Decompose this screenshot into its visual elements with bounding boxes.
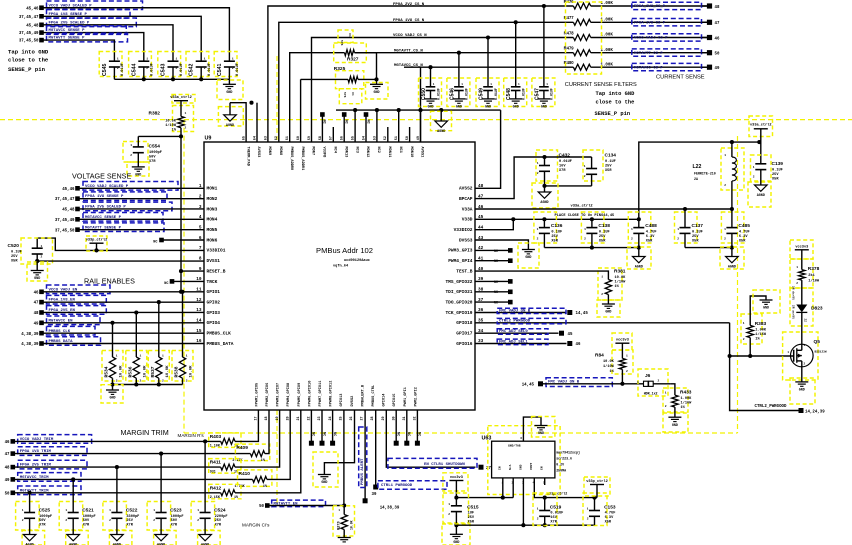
- svg-text:ZZ: ZZ: [803, 319, 806, 323]
- review highlight box: [566, 2, 602, 74]
- svg-text:50V: 50V: [149, 156, 156, 160]
- svg-text:X5R: X5R: [551, 240, 558, 244]
- pin 64 AVSS3: [253, 136, 260, 157]
- svg-text:2: 2: [796, 282, 798, 285]
- note MARGIN CI's: [242, 523, 270, 528]
- svg-text:0.1UF: 0.1UF: [11, 251, 22, 255]
- svg-text:MON7: MON7: [311, 147, 315, 156]
- svg-text:25: 25: [339, 416, 343, 420]
- svg-text:FPWM4_GPIO8: FPWM4_GPIO8: [287, 383, 291, 407]
- svg-text:AGND: AGND: [635, 266, 643, 270]
- wire MGTAVTT CS P: [290, 53, 574, 142]
- junction: [375, 108, 379, 112]
- pin 53 NC2: [373, 136, 380, 153]
- note text: [555, 214, 616, 218]
- svg-text:25V: 25V: [551, 235, 558, 239]
- junction: [179, 134, 183, 138]
- svg-text:AGND: AGND: [757, 194, 765, 198]
- pin 5 MON5: [199, 225, 218, 233]
- svg-text:1UF: 1UF: [468, 512, 474, 516]
- svg-text:4,38,39: 4,38,39: [21, 343, 39, 347]
- svg-text:0.01UF: 0.01UF: [550, 512, 563, 516]
- svg-text:2: 2: [587, 518, 589, 521]
- pin no-connect: [475, 290, 513, 296]
- ground AGND: [431, 110, 452, 134]
- svg-text:FPGA_2V2_CS_N: FPGA_2V2_CS_N: [393, 3, 425, 7]
- capacitor C546: [447, 53, 470, 107]
- pin 17 FPWM1_GPIO5: [255, 383, 260, 421]
- svg-text:MON2: MON2: [207, 196, 218, 202]
- svg-text:R403: R403: [210, 434, 222, 440]
- svg-text:28: 28: [371, 416, 375, 420]
- svg-text:1/16W: 1/16W: [681, 401, 693, 406]
- wire: [545, 156, 592, 158]
- svg-text:2.15K: 2.15K: [210, 496, 221, 500]
- svg-text:C139: C139: [772, 161, 784, 167]
- svg-text:0.01UF: 0.01UF: [559, 160, 572, 164]
- pin 33 GPIO16: [456, 339, 483, 347]
- resistor R411: [209, 459, 241, 475]
- svg-text:10.0K: 10.0K: [166, 365, 170, 378]
- svg-text:V33A: V33A: [462, 206, 473, 212]
- node VCCO VADJ EN: [34, 285, 110, 295]
- ground: [366, 83, 389, 100]
- review highlight line vertical: [276, 56, 278, 506]
- svg-text:25V: 25V: [772, 173, 779, 177]
- svg-text:1: 1: [677, 228, 679, 231]
- svg-text:FMC VADJ ON B: FMC VADJ ON B: [499, 309, 531, 313]
- svg-text:2: 2: [116, 380, 118, 383]
- svg-text:46: 46: [576, 343, 581, 347]
- pin 27 PMBALERT_B: [361, 384, 366, 420]
- svg-text:1: 1: [584, 228, 586, 231]
- svg-text:1/10W: 1/10W: [165, 123, 177, 128]
- svg-text:2: 2: [41, 256, 43, 259]
- wire pull resistor bus: [110, 382, 182, 386]
- svg-text:576: 576: [340, 40, 343, 46]
- svg-text:2k1: 2k1: [808, 273, 814, 278]
- svg-text:MON9: MON9: [267, 147, 271, 156]
- node FPGA_2V5_EN: [34, 306, 107, 316]
- svg-text:29: 29: [382, 416, 386, 420]
- svg-text:1: 1: [117, 58, 119, 61]
- node PMBUS ALERT: [359, 410, 400, 511]
- svg-text:MON10: MON10: [409, 147, 413, 158]
- wire: [78, 198, 205, 200]
- svg-text:R84: R84: [595, 353, 604, 359]
- svg-text:10.0K: 10.0K: [603, 360, 615, 364]
- wire MGTAVCC CS P: [421, 67, 574, 142]
- svg-text:PMBUS_CLK: PMBUS_CLK: [207, 330, 232, 336]
- svg-text:1/10W: 1/10W: [603, 364, 615, 369]
- node FPGA 1V8 SENSE P: [55, 192, 167, 202]
- pin 45 V33D: [462, 215, 484, 223]
- resistor R478: [564, 30, 707, 40]
- wire U63 gnd pin: [522, 478, 524, 525]
- node FMC VADJ ON B: [522, 378, 645, 388]
- svg-text:48: 48: [5, 467, 10, 471]
- svg-text:2: 2: [601, 293, 603, 296]
- ground: [509, 91, 522, 110]
- svg-text:PMBUS_ADDR0: PMBUS_ADDR0: [289, 147, 293, 171]
- svg-text:C541: C541: [217, 63, 223, 76]
- pin 42 PWM3_GPI3: [448, 246, 483, 254]
- svg-text:X7R: X7R: [215, 523, 222, 527]
- power v33p_ctrl2: [584, 477, 610, 498]
- svg-text:X7R: X7R: [149, 160, 156, 164]
- svg-text:50: 50: [715, 53, 720, 57]
- resistor R476: [564, 0, 707, 9]
- svg-text:MON11: MON11: [387, 147, 391, 158]
- svg-text:FPWM1_GPIO5: FPWM1_GPIO5: [255, 383, 259, 407]
- svg-text:R325: R325: [334, 66, 346, 72]
- diode D823 LED: [790, 280, 823, 344]
- wire: [42, 25, 174, 61]
- svg-text:GND: GND: [34, 277, 40, 281]
- node FPGA 1V8 TRIM: [5, 447, 87, 457]
- svg-text:2: 2: [185, 127, 187, 130]
- svg-text:GND: GND: [799, 389, 805, 393]
- node FPGA_1V8_EN: [34, 295, 107, 305]
- node VCCO VADJ CS P: [632, 34, 720, 42]
- pin 40 TEST_B: [456, 267, 483, 275]
- junction: [28, 491, 32, 495]
- resistor R410: [235, 470, 272, 489]
- svg-text:C522: C522: [126, 508, 138, 514]
- svg-text:16V: 16V: [559, 165, 566, 169]
- capacitor C485: [721, 209, 750, 244]
- ground: [338, 530, 351, 542]
- ground: [597, 295, 620, 318]
- svg-text:V33DIO1: V33DIO1: [207, 248, 226, 254]
- svg-text:Tap into GND: Tap into GND: [8, 49, 49, 56]
- ground: [101, 385, 123, 404]
- wire: [376, 110, 378, 142]
- svg-text:39: 39: [372, 493, 377, 497]
- node FPGA_2V2_CS_N label: [393, 3, 425, 7]
- capacitor C522: [103, 467, 139, 530]
- wire: [42, 332, 205, 334]
- junction: [542, 4, 546, 8]
- wire stub: [409, 127, 411, 142]
- pin 63 MON9: [264, 136, 271, 155]
- junction: [199, 77, 203, 81]
- pin 23 FPWM7_GPIO11: [318, 381, 323, 421]
- svg-text:X7R: X7R: [559, 169, 566, 173]
- svg-text:45,46: 45,46: [26, 7, 39, 11]
- svg-text:CTRL2 PWRGOOD: CTRL2 PWRGOOD: [499, 320, 531, 324]
- pin 31 PWM1_GPI1: [403, 387, 408, 420]
- svg-text:R378: R378: [808, 266, 820, 272]
- node FPGA 1V8 CS N label: [393, 19, 425, 23]
- node v33a rail: [475, 204, 732, 210]
- svg-text:0.01UF: 0.01UF: [550, 88, 554, 100]
- svg-text:2: 2: [537, 238, 539, 241]
- pin no-connect: [475, 300, 513, 306]
- svg-text:C545: C545: [102, 63, 108, 76]
- resistor R433: [663, 384, 692, 412]
- svg-text:GND: GND: [520, 464, 523, 470]
- svg-text:FMC ADJ SEL1: FMC ADJ SEL1: [499, 340, 528, 344]
- svg-text:1: 1: [197, 509, 199, 512]
- wire: [235, 410, 258, 441]
- section title CURRENT SENSE: [656, 74, 705, 80]
- svg-text:TCK_GPIO19: TCK_GPIO19: [445, 310, 472, 316]
- svg-text:2.27K: 2.27K: [232, 459, 243, 463]
- wire: [685, 233, 734, 256]
- svg-text:2: 2: [537, 518, 539, 521]
- pin 34 GPIO17: [456, 329, 483, 337]
- svg-text:49: 49: [715, 67, 720, 71]
- svg-text:37,45,49: 37,45,49: [55, 219, 75, 223]
- pin 52 MON11: [384, 136, 391, 157]
- svg-text:GND: GND: [605, 311, 611, 315]
- review highlight line horizontal: [0, 119, 852, 121]
- svg-text:N/A: N/A: [508, 464, 512, 470]
- pin no-connect: [475, 258, 513, 264]
- svg-text:C547: C547: [534, 88, 540, 100]
- svg-text:vcc3v3: vcc3v3: [616, 338, 629, 342]
- svg-text:TEST_B: TEST_B: [456, 268, 473, 274]
- resistor R409: [232, 444, 269, 463]
- svg-text:X5R: X5R: [11, 260, 18, 264]
- svg-text:VCCO VADJ CS P: VCCO VADJ CS P: [634, 37, 668, 41]
- capacitor C137: [675, 207, 704, 244]
- capacitor C515: [443, 493, 479, 525]
- svg-text:RAIL ENABLES: RAIL ENABLES: [84, 277, 135, 286]
- svg-text:2: 2: [677, 238, 679, 241]
- svg-text:1: 1: [584, 165, 586, 168]
- capacitor C521: [59, 479, 95, 530]
- svg-text:1: 1: [743, 322, 745, 325]
- svg-text:25V: 25V: [605, 165, 612, 169]
- pin no-connect: [342, 112, 348, 142]
- wire stub: [387, 127, 389, 142]
- wire: [42, 40, 115, 61]
- svg-text:FPWM2_GPIO6: FPWM2_GPIO6: [266, 383, 270, 407]
- svg-text:2: 2: [153, 519, 155, 522]
- svg-text:1: 1: [537, 228, 539, 231]
- wire: [267, 410, 290, 479]
- svg-text:0.01UF: 0.01UF: [465, 88, 469, 100]
- svg-text:47: 47: [715, 22, 720, 26]
- svg-text:EN CTLR1 SHUTDOWN: EN CTLR1 SHUTDOWN: [424, 463, 465, 467]
- svg-text:V33D: V33D: [462, 217, 473, 223]
- ground AGND: [109, 518, 131, 545]
- resistor R378: [790, 250, 820, 288]
- svg-text:2: 2: [658, 380, 660, 383]
- junction: [142, 77, 146, 81]
- capacitor C541: [214, 52, 240, 77]
- svg-text:10.0K: 10.0K: [350, 520, 354, 530]
- capacitor C543: [158, 52, 184, 77]
- node MGTAVTT CS N label: [394, 49, 423, 53]
- svg-text:1.00K: 1.00K: [755, 329, 767, 333]
- svg-text:R538: R538: [174, 366, 180, 377]
- svg-text:14,38,39: 14,38,39: [380, 507, 400, 511]
- svg-text:1: 1: [537, 508, 539, 511]
- svg-text:PMBUS ALERT: PMBUS ALERT: [361, 458, 365, 485]
- svg-text:C524: C524: [214, 508, 226, 514]
- svg-text:MON1: MON1: [207, 186, 218, 192]
- svg-text:2: 2: [665, 405, 667, 408]
- svg-text:X5R: X5R: [605, 521, 612, 525]
- resistor R325: [301, 66, 377, 142]
- resistor R537: [148, 300, 170, 384]
- svg-text:4.7UF: 4.7UF: [646, 231, 657, 235]
- pin 22 FPWM6_GPIO10: [308, 381, 313, 421]
- svg-text:BSS123W: BSS123W: [815, 351, 827, 354]
- svg-text:GPIO4: GPIO4: [207, 320, 221, 326]
- wire RESET_B pullup: [179, 269, 204, 294]
- capacitor C153: [583, 493, 616, 526]
- capacitor C432: [536, 150, 572, 181]
- svg-text:1: 1: [22, 509, 24, 512]
- ground: [424, 91, 437, 110]
- svg-text:TDO_GPIO20: TDO_GPIO20: [445, 299, 472, 305]
- svg-text:GPIO15: GPIO15: [393, 394, 397, 407]
- svg-text:C137: C137: [692, 223, 704, 229]
- wire THERM_PAD AVSS3 to AGND: [230, 101, 257, 142]
- svg-text:Q5: Q5: [814, 339, 821, 345]
- wire v33d to ferrite bus: [637, 140, 760, 221]
- ground AGND: [66, 518, 89, 545]
- wire output bus: [534, 478, 597, 500]
- resistor R381: [475, 268, 626, 300]
- svg-text:X5R: X5R: [739, 240, 746, 244]
- svg-text:1: 1: [65, 509, 67, 512]
- section title VOLTAGE SENSE: [72, 172, 131, 181]
- svg-text:C549: C549: [479, 88, 485, 100]
- svg-text:37,45,49: 37,45,49: [19, 32, 39, 36]
- resistor R383: [741, 296, 767, 356]
- pin 55 NC3: [352, 136, 359, 153]
- svg-text:DVSS2: DVSS2: [351, 396, 355, 407]
- wire pin 25: [342, 410, 346, 508]
- wire: [42, 16, 202, 61]
- resistor R538: [172, 290, 194, 385]
- junction: [486, 35, 490, 39]
- note text: [595, 91, 636, 117]
- pin 57 NC4: [330, 136, 337, 154]
- svg-text:1: 1: [587, 508, 589, 511]
- svg-text:0.01UF: 0.01UF: [121, 63, 125, 76]
- wire VCCO VADJ CS P: [312, 38, 574, 143]
- svg-text:2: 2: [186, 380, 188, 383]
- svg-text:MON6: MON6: [207, 237, 218, 243]
- wire bottom bus: [456, 523, 594, 527]
- ground AGND: [748, 170, 771, 207]
- wire: [78, 229, 205, 231]
- ground: [127, 153, 149, 178]
- svg-text:47: 47: [34, 302, 39, 306]
- wire: [42, 33, 144, 62]
- ground AGND: [22, 518, 44, 545]
- svg-text:C519: C519: [550, 505, 562, 511]
- svg-text:C546: C546: [449, 88, 455, 100]
- capacitor C549: [476, 38, 499, 107]
- svg-text:MON5: MON5: [207, 227, 218, 233]
- node PMBUS DATA: [21, 337, 100, 347]
- review highlight rectangle: [184, 120, 738, 433]
- svg-text:CURRENT SENSE: CURRENT SENSE: [656, 74, 705, 80]
- svg-text:ucd90120Aauc: ucd90120Aauc: [344, 258, 370, 263]
- wire: [355, 53, 379, 85]
- svg-text:37,45,47: 37,45,47: [55, 198, 75, 202]
- svg-text:1: 1: [537, 162, 539, 165]
- pin 44 V33DIO2: [454, 225, 484, 233]
- svg-text:2: 2: [626, 370, 628, 373]
- svg-text:1: 1: [140, 355, 142, 358]
- svg-text:GND: GND: [453, 541, 459, 545]
- wire: [13, 492, 221, 494]
- ground: [217, 79, 243, 99]
- svg-text:GND: GND: [427, 106, 433, 110]
- pin no-connect: [320, 112, 326, 142]
- pin 30 GPIO15: [392, 394, 397, 421]
- svg-text:46: 46: [715, 37, 720, 41]
- svg-text:1: 1: [753, 166, 755, 169]
- pin 7 V33DIO1: [199, 246, 226, 254]
- svg-text:R381: R381: [614, 269, 626, 275]
- pin numbers U63: [502, 482, 546, 485]
- svg-text:AGND: AGND: [226, 124, 234, 128]
- svg-text:CTRL2_PWRGOOD: CTRL2_PWRGOOD: [755, 405, 787, 409]
- svg-text:GND: GND: [525, 256, 531, 260]
- svg-text:1: 1: [162, 355, 164, 358]
- svg-text:4.7UF: 4.7UF: [739, 231, 750, 235]
- svg-text:25V: 25V: [599, 235, 606, 239]
- pin 48 AVSS2: [459, 184, 484, 192]
- pin 14 GPIO4: [196, 319, 220, 327]
- svg-text:1.00K: 1.00K: [681, 397, 693, 401]
- pin no-connect: [364, 112, 370, 142]
- svg-text:V33DIO2: V33DIO2: [454, 227, 473, 233]
- svg-text:MON13: MON13: [343, 147, 347, 158]
- svg-text:X7R: X7R: [550, 521, 557, 525]
- pin 12 GPIO2: [196, 298, 220, 306]
- svg-text:R411: R411: [210, 460, 222, 466]
- wire FPGA 1V8 CS P: [279, 22, 574, 142]
- svg-text:1: 1: [724, 154, 726, 157]
- pin 11 GPIO1: [196, 288, 220, 296]
- node VCCO VADJ SCALED P: [26, 1, 142, 11]
- svg-text:PLACE CLOSE TO Ux PINS44,45: PLACE CLOSE TO Ux PINS44,45: [555, 214, 616, 218]
- svg-text:2: 2: [537, 172, 539, 175]
- wire input bus: [456, 478, 513, 500]
- wire v33dio2: [475, 219, 513, 229]
- svg-text:R382: R382: [149, 111, 161, 117]
- svg-text:10.0K: 10.0K: [144, 365, 148, 378]
- svg-text:vqfn_64: vqfn_64: [333, 264, 349, 269]
- node MGTAVTT SENSE P: [19, 33, 128, 43]
- node FMC ADJ SEL0: [475, 329, 573, 337]
- svg-text:37,45,50: 37,45,50: [19, 40, 39, 44]
- svg-text:CTRL1 PWRGOOD: CTRL1 PWRGOOD: [381, 484, 413, 488]
- svg-text:close to the: close to the: [8, 57, 49, 64]
- IC U9 UCD90120A: [204, 136, 475, 411]
- svg-text:V33FB: V33FB: [322, 147, 326, 159]
- svg-text:2: 2: [162, 380, 164, 383]
- wire stub: [332, 127, 334, 142]
- node FPGA 1V8 CS P: [632, 19, 720, 27]
- node MGTAVTT CS P: [632, 49, 720, 57]
- svg-text:BPCAP: BPCAP: [459, 196, 473, 202]
- pin 49 AVSS1: [417, 136, 424, 157]
- pin 54 MON12: [362, 136, 369, 157]
- svg-text:6.3V: 6.3V: [605, 516, 614, 520]
- pin no-connect: [394, 410, 400, 446]
